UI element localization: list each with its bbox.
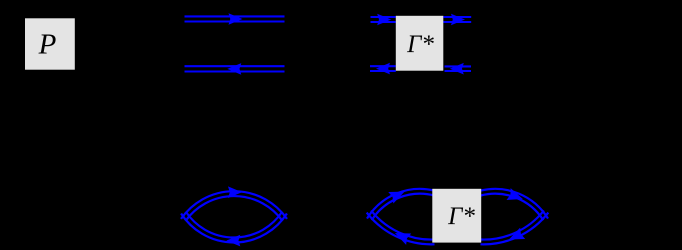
bare quark loop (left lens) (181, 191, 287, 242)
svg-text:Γ*: Γ* (406, 31, 434, 58)
arrow on top of left loop (right) (228, 186, 242, 198)
outer top arc (181, 191, 287, 219)
svg-text:Γ*: Γ* (447, 203, 475, 230)
top-left outer arc (367, 189, 434, 219)
top-right inner arc (481, 194, 544, 221)
top-left inner arc (372, 194, 435, 221)
antiquark propagator line (below, left-moving) (185, 66, 285, 71)
quark propagator line (top, right-moving) (185, 16, 285, 21)
vertex box Gamma* (bottom row, drawn over arcs) (432, 189, 481, 243)
bottom-right outer arc (481, 213, 549, 245)
stub top-right of vertex box (outgoing quark) (443, 17, 471, 22)
bottom-right inner arc (481, 211, 544, 240)
box P (polarization blob) (25, 18, 75, 69)
stub bottom-left of vertex box (outgoing antiquark) (370, 66, 396, 71)
arrow on bottom of left loop (left) (226, 235, 240, 247)
outer bottom arc (181, 214, 287, 243)
arrow right-lens bottom-right (left-down) (506, 228, 525, 246)
arrow right-lens top-right (right-down) (507, 188, 525, 205)
inner bottom arc (186, 212, 282, 238)
svg-text:P: P (38, 28, 57, 60)
arrow right-lens top-left (right-up) (388, 186, 407, 204)
arrow on antiquark propagator (left) (227, 63, 241, 75)
bottom-left inner arc (371, 211, 434, 240)
stub top-left of vertex box (incoming quark) (371, 17, 396, 22)
stub bottom-right of vertex box (incoming antiquark) (445, 66, 472, 71)
inner top arc (186, 196, 283, 221)
vertex box Gamma* (top row) (396, 16, 444, 71)
bottom-left outer arc (367, 213, 435, 245)
arrow right-lens bottom-left (left-up) (392, 227, 411, 245)
arrow on top propagator (right) (229, 13, 243, 25)
top-right outer arc (481, 189, 548, 219)
dressed loop with Gamma* (right lens) (367, 189, 549, 244)
